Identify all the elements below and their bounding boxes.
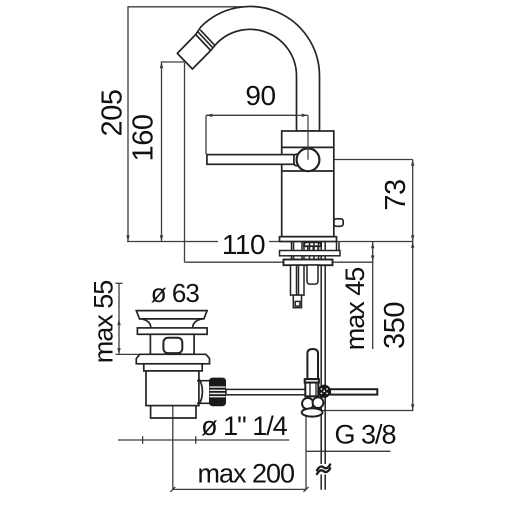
nut inner lines (310, 383, 316, 397)
dim 350 bottom reference line (321, 410, 414, 412)
lever ball bump (293, 154, 300, 166)
drain knob knurled (209, 378, 226, 407)
drain rod left (226, 389, 305, 394)
drain center line (172, 400, 174, 490)
stud tip square (295, 301, 300, 306)
svg-text:ø 63: ø 63 (151, 278, 200, 308)
aerator face line (196, 35, 211, 51)
arrow max55 top (117, 319, 120, 325)
knurled knob dark circle (318, 385, 331, 398)
pipe break white gap (317, 464, 332, 475)
arrow 73 bottom (411, 235, 414, 241)
arrow 160 top (160, 62, 163, 68)
tick max200 right (304, 487, 309, 492)
neck spool concave (142, 319, 202, 328)
dim G3/8 line (306, 450, 390, 452)
plate1 top flange (136, 311, 207, 319)
valve nut body (305, 383, 318, 397)
arrow 205 bottom (126, 235, 129, 241)
dim 90 horizontal line (206, 114, 308, 116)
tick max200 left (170, 487, 175, 492)
body rectangle (282, 131, 334, 237)
dim 73 horizontal reference at handle center (320, 159, 413, 161)
dim 160 vertical line (161, 62, 163, 242)
pop-up knob notch right (334, 219, 343, 227)
dim max55 vertical line (118, 283, 120, 354)
svg-text:max 45: max 45 (340, 268, 370, 351)
dim baseline / countertop line y=241.5 (127, 241, 413, 243)
aerator ring 1 (198, 32, 213, 48)
stud thread lines middle (292, 256, 319, 259)
plate3 lower flange (136, 354, 209, 364)
svg-text:90: 90 (245, 80, 275, 111)
pipe break symbol (317, 465, 330, 475)
bottom tube (151, 406, 196, 418)
svg-text:G 3/8: G 3/8 (334, 420, 395, 450)
dim 160 top tick at aerator (161, 61, 186, 63)
drain assembly (136, 311, 209, 418)
arrow max45 bottom (371, 255, 374, 261)
dimension arrowheads (117, 62, 414, 411)
svg-text:350: 350 (379, 302, 411, 349)
valve nut flange (305, 379, 319, 383)
valve body lobes (302, 398, 313, 409)
hose tail (307, 265, 318, 284)
upper body (144, 364, 202, 371)
text 110 white backing (218, 234, 269, 256)
spool body (150, 334, 194, 354)
spout tube body (177, 6, 319, 131)
svg-text:205: 205 (96, 90, 128, 137)
cartridge joint circle (297, 148, 320, 171)
svg-text:max 55: max 55 (89, 281, 119, 364)
dim dia 1 1/4 line (118, 439, 289, 441)
washer 1 (280, 251, 341, 256)
under-counter hardware (280, 242, 341, 490)
arrow 73 top (411, 160, 414, 166)
stud inner rods (297, 265, 299, 295)
dim max55 top end dash (116, 282, 123, 284)
plate2 (137, 328, 207, 334)
arrow 90 right repaint (302, 114, 308, 117)
tick dia114 left (142, 436, 144, 444)
hose nut top rounded box (304, 242, 321, 246)
arrow max45 top (371, 242, 374, 248)
arrow 160 bottom (160, 235, 163, 241)
svg-text:73: 73 (380, 179, 412, 210)
tailpiece body (146, 371, 199, 406)
svg-text:ø 1" 1/4: ø 1" 1/4 (201, 411, 288, 441)
dim max55 bottom reference to plate3 (116, 353, 142, 355)
dimension lines group (116, 7, 414, 490)
arrow 350 bottom (411, 404, 414, 410)
washer 2 (284, 260, 333, 266)
faucet body block (207, 131, 343, 242)
aerator ring 2 (200, 30, 215, 46)
spool hole rounded square (163, 338, 182, 353)
knob neck (197, 379, 210, 405)
valve bottom ellipse (302, 408, 323, 416)
lever handle (207, 155, 294, 165)
dim max200 line (173, 488, 306, 490)
deck underside line left segment (185, 261, 284, 263)
dim 90 left extension to lever end (205, 115, 207, 154)
mounting stud (291, 265, 305, 295)
svg-text:160: 160 (127, 115, 159, 162)
dim G3/8 vertical extension (305, 417, 307, 490)
oblique ticks (143, 436, 309, 492)
dim 73/350 vertical line (412, 160, 414, 411)
right rod (330, 389, 377, 394)
arrow 350 top (411, 242, 414, 248)
riser pipe with round cap (307, 349, 318, 379)
hose verticals below box (308, 246, 318, 251)
body cap seam (282, 146, 334, 148)
arrow 90 left (206, 114, 212, 117)
body lower seam (282, 170, 334, 172)
arrow max55 bottom (117, 348, 120, 354)
supply valve assembly (302, 349, 378, 417)
deck underside line right segment (333, 261, 374, 263)
base flange (280, 237, 337, 242)
stud tip block (293, 295, 301, 308)
supply pipe long (321, 242, 325, 490)
axis line through 90 dim into circle center (296, 115, 308, 160)
tick dia114 right (195, 436, 197, 444)
dim max45 vertical line (372, 242, 374, 350)
svg-text:110: 110 (222, 229, 265, 260)
arrow 90 right (302, 114, 308, 117)
svg-text:max 200: max 200 (198, 459, 295, 489)
stud thread lines upper (292, 242, 340, 252)
dim top horizontal line (205 top reference) (127, 6, 243, 8)
dim 205 vertical line (127, 7, 129, 242)
wire extension from aerator down (110 dim left extension) (184, 63, 186, 262)
